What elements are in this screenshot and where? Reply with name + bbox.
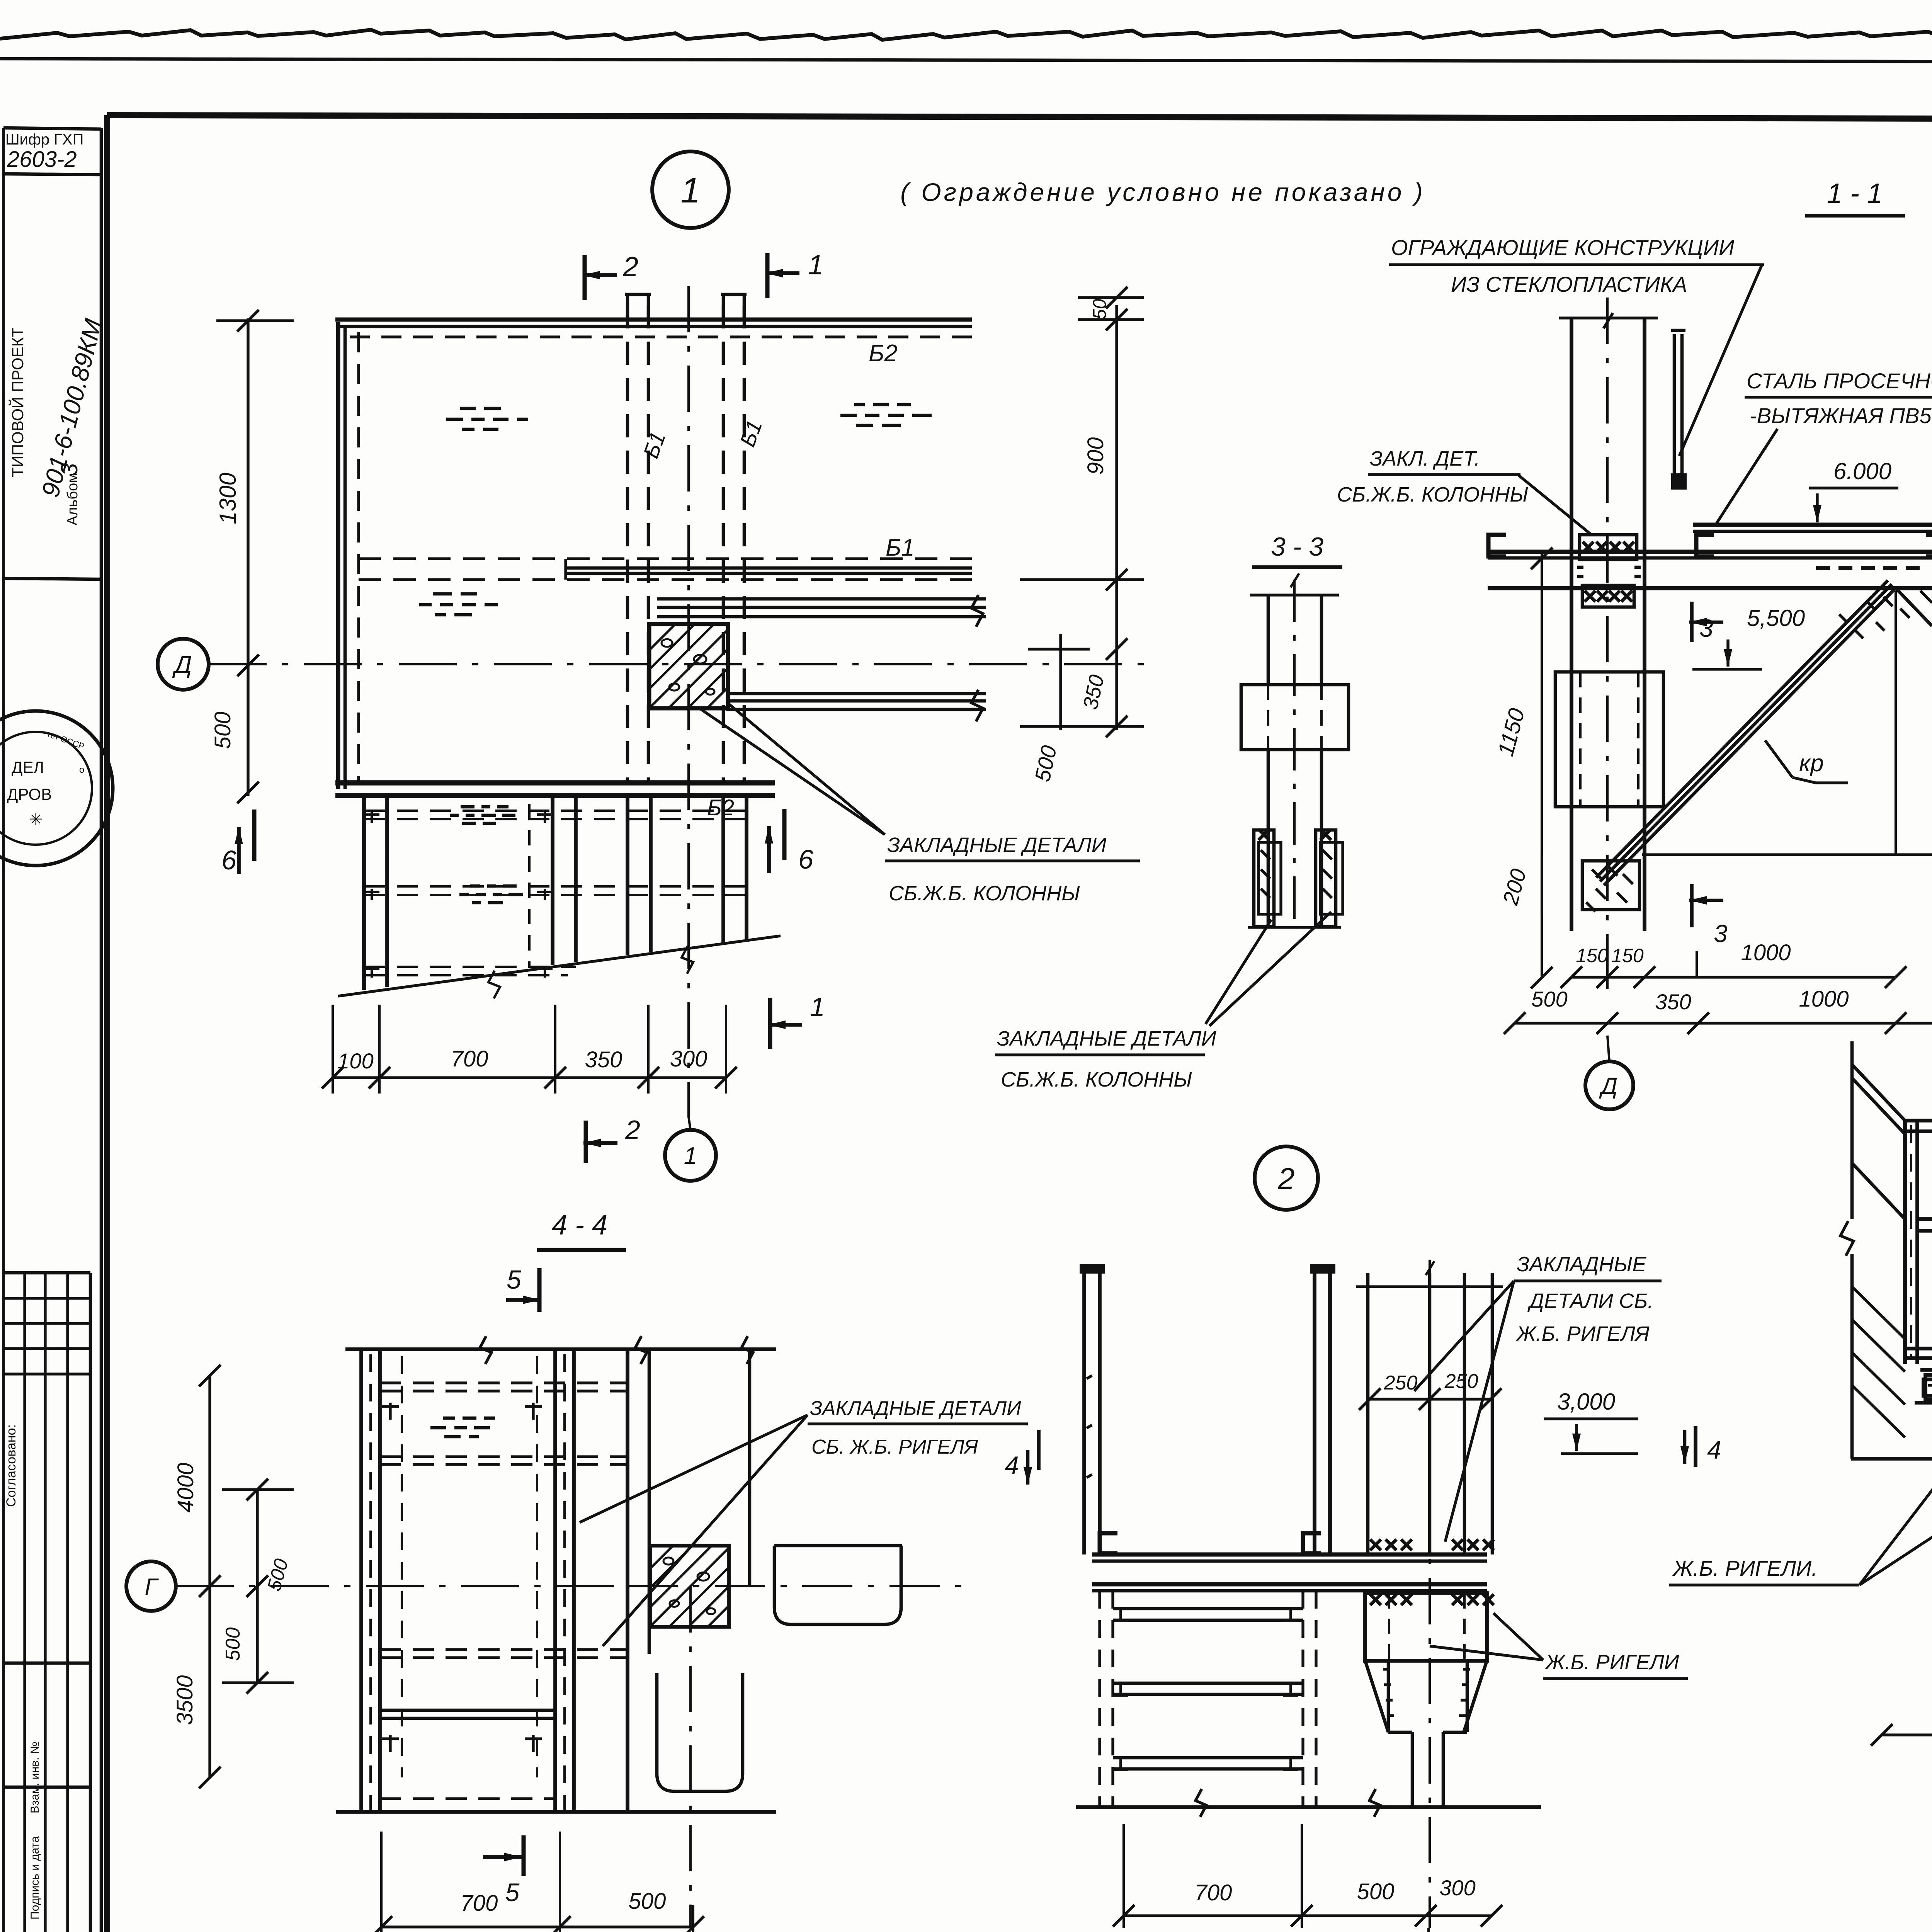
svg-text:ДЕЛ: ДЕЛ bbox=[12, 758, 44, 776]
svg-text:-ВЫТЯЖНАЯ ПВ50Б: -ВЫТЯЖНАЯ ПВ50Б bbox=[1750, 403, 1932, 428]
svg-text:2: 2 bbox=[622, 252, 638, 282]
svg-text:5,500: 5,500 bbox=[1747, 605, 1805, 631]
svg-text:Г: Г bbox=[145, 1574, 159, 1600]
svg-text:6: 6 bbox=[221, 845, 236, 875]
svg-text:Альбом: Альбом bbox=[65, 473, 81, 526]
svg-text:СБ.Ж.Б. КОЛОННЫ: СБ.Ж.Б. КОЛОННЫ bbox=[1001, 1068, 1192, 1091]
svg-text:500: 500 bbox=[222, 1628, 244, 1661]
svg-text:1 - 1: 1 - 1 bbox=[1827, 178, 1883, 209]
svg-text:Шифр ГХП: Шифр ГХП bbox=[5, 131, 83, 148]
svg-text:1: 1 bbox=[810, 992, 825, 1022]
svg-text:1000: 1000 bbox=[1799, 986, 1849, 1012]
svg-text:2: 2 bbox=[1277, 1162, 1294, 1196]
svg-text:Д: Д bbox=[172, 651, 192, 679]
svg-text:ЗАКЛ. ДЕТ.: ЗАКЛ. ДЕТ. bbox=[1370, 447, 1480, 470]
svg-text:4000: 4000 bbox=[173, 1463, 198, 1512]
svg-text:500: 500 bbox=[629, 1889, 666, 1914]
svg-text:3 - 3: 3 - 3 bbox=[1271, 532, 1323, 561]
svg-text:150: 150 bbox=[1611, 945, 1644, 966]
svg-text:1300: 1300 bbox=[215, 473, 241, 524]
svg-text:СТАЛЬ ПРОСЕЧНО-: СТАЛЬ ПРОСЕЧНО- bbox=[1747, 369, 1932, 393]
svg-text:350: 350 bbox=[585, 1047, 622, 1072]
svg-text:3500: 3500 bbox=[172, 1675, 197, 1725]
svg-text:500: 500 bbox=[210, 712, 235, 749]
svg-text:5: 5 bbox=[507, 1265, 521, 1294]
svg-text:СБ. Ж.Б. РИГЕЛЯ: СБ. Ж.Б. РИГЕЛЯ bbox=[811, 1436, 978, 1458]
svg-text:Ж.Б. РИГЕЛИ: Ж.Б. РИГЕЛИ bbox=[1544, 1651, 1679, 1674]
svg-text:6: 6 bbox=[798, 844, 813, 874]
svg-text:о: о bbox=[79, 765, 84, 775]
svg-text:100: 100 bbox=[337, 1049, 373, 1073]
svg-text:300: 300 bbox=[670, 1046, 707, 1071]
svg-text:ДЕТАЛИ СБ.: ДЕТАЛИ СБ. bbox=[1527, 1289, 1653, 1313]
svg-text:300: 300 bbox=[1439, 1876, 1475, 1900]
svg-text:✳: ✳ bbox=[29, 810, 43, 828]
svg-text:500: 500 bbox=[1531, 987, 1567, 1011]
svg-text:Ж.Б. РИГЕЛИ.: Ж.Б. РИГЕЛИ. bbox=[1672, 1556, 1818, 1580]
svg-text:Б2: Б2 bbox=[707, 795, 734, 820]
svg-text:ЗАКЛАДНЫЕ: ЗАКЛАДНЫЕ bbox=[1517, 1253, 1647, 1276]
svg-text:3: 3 bbox=[1699, 614, 1713, 642]
svg-text:СБ.Ж.Б. КОЛОННЫ: СБ.Ж.Б. КОЛОННЫ bbox=[1337, 483, 1528, 506]
svg-text:5: 5 bbox=[505, 1878, 520, 1906]
svg-text:ОГРАЖДАЮЩИЕ КОНСТРУКЦИИ: ОГРАЖДАЮЩИЕ КОНСТРУКЦИИ bbox=[1391, 235, 1735, 260]
svg-text:ЗАКЛАДНЫЕ ДЕТАЛИ: ЗАКЛАДНЫЕ ДЕТАЛИ bbox=[997, 1027, 1216, 1050]
svg-text:Б2: Б2 bbox=[869, 340, 898, 367]
svg-text:Подпись и дата: Подпись и дата bbox=[29, 1836, 41, 1920]
svg-text:6.000: 6.000 bbox=[1833, 458, 1891, 484]
svg-text:50: 50 bbox=[1090, 299, 1110, 320]
svg-text:4: 4 bbox=[1707, 1435, 1721, 1464]
svg-text:150: 150 bbox=[1576, 945, 1608, 966]
svg-text:ЗАКЛАДНЫЕ ДЕТАЛИ: ЗАКЛАДНЫЕ ДЕТАЛИ bbox=[810, 1397, 1021, 1420]
svg-text:ТИПОВОЙ ПРОЕКТ: ТИПОВОЙ ПРОЕКТ bbox=[8, 327, 27, 477]
svg-text:Согласовано:: Согласовано: bbox=[4, 1424, 19, 1507]
svg-text:700: 700 bbox=[1195, 1880, 1232, 1905]
svg-text:1: 1 bbox=[684, 1143, 697, 1169]
svg-text:3: 3 bbox=[56, 463, 82, 476]
svg-text:СБ.Ж.Б. КОЛОННЫ: СБ.Ж.Б. КОЛОННЫ bbox=[889, 882, 1080, 905]
svg-text:4 - 4: 4 - 4 bbox=[552, 1210, 607, 1241]
svg-text:1: 1 bbox=[808, 250, 823, 281]
svg-text:Б1: Б1 bbox=[886, 534, 915, 561]
svg-text:ЗАКЛАДНЫЕ ДЕТАЛИ: ЗАКЛАДНЫЕ ДЕТАЛИ bbox=[887, 833, 1107, 857]
svg-text:1000: 1000 bbox=[1741, 940, 1791, 965]
svg-text:700: 700 bbox=[451, 1046, 488, 1071]
svg-text:кр: кр bbox=[1799, 750, 1824, 777]
svg-text:3: 3 bbox=[1714, 920, 1728, 947]
svg-text:Ж.Б. РИГЕЛЯ: Ж.Б. РИГЕЛЯ bbox=[1515, 1322, 1650, 1345]
svg-text:700: 700 bbox=[461, 1891, 498, 1916]
svg-text:250: 250 bbox=[1444, 1370, 1478, 1393]
svg-text:500: 500 bbox=[1357, 1879, 1395, 1904]
svg-text:ДРОВ: ДРОВ bbox=[7, 785, 52, 803]
svg-text:ИЗ СТЕКЛОПЛАСТИКА: ИЗ СТЕКЛОПЛАСТИКА bbox=[1451, 272, 1687, 296]
svg-text:250: 250 bbox=[1384, 1372, 1418, 1394]
svg-text:2: 2 bbox=[625, 1115, 640, 1145]
svg-text:3,000: 3,000 bbox=[1557, 1389, 1615, 1415]
svg-text:2603-2: 2603-2 bbox=[7, 147, 77, 172]
svg-text:Д: Д bbox=[1599, 1073, 1617, 1099]
svg-text:1: 1 bbox=[680, 171, 700, 210]
svg-text:900: 900 bbox=[1083, 437, 1108, 475]
svg-text:( Ограждение условно не пока: ( Ограждение условно не показано ) bbox=[900, 178, 1425, 206]
svg-text:Взам. инв. №: Взам. инв. № bbox=[29, 1742, 41, 1813]
svg-text:350: 350 bbox=[1655, 990, 1691, 1014]
svg-text:4: 4 bbox=[1005, 1451, 1019, 1480]
